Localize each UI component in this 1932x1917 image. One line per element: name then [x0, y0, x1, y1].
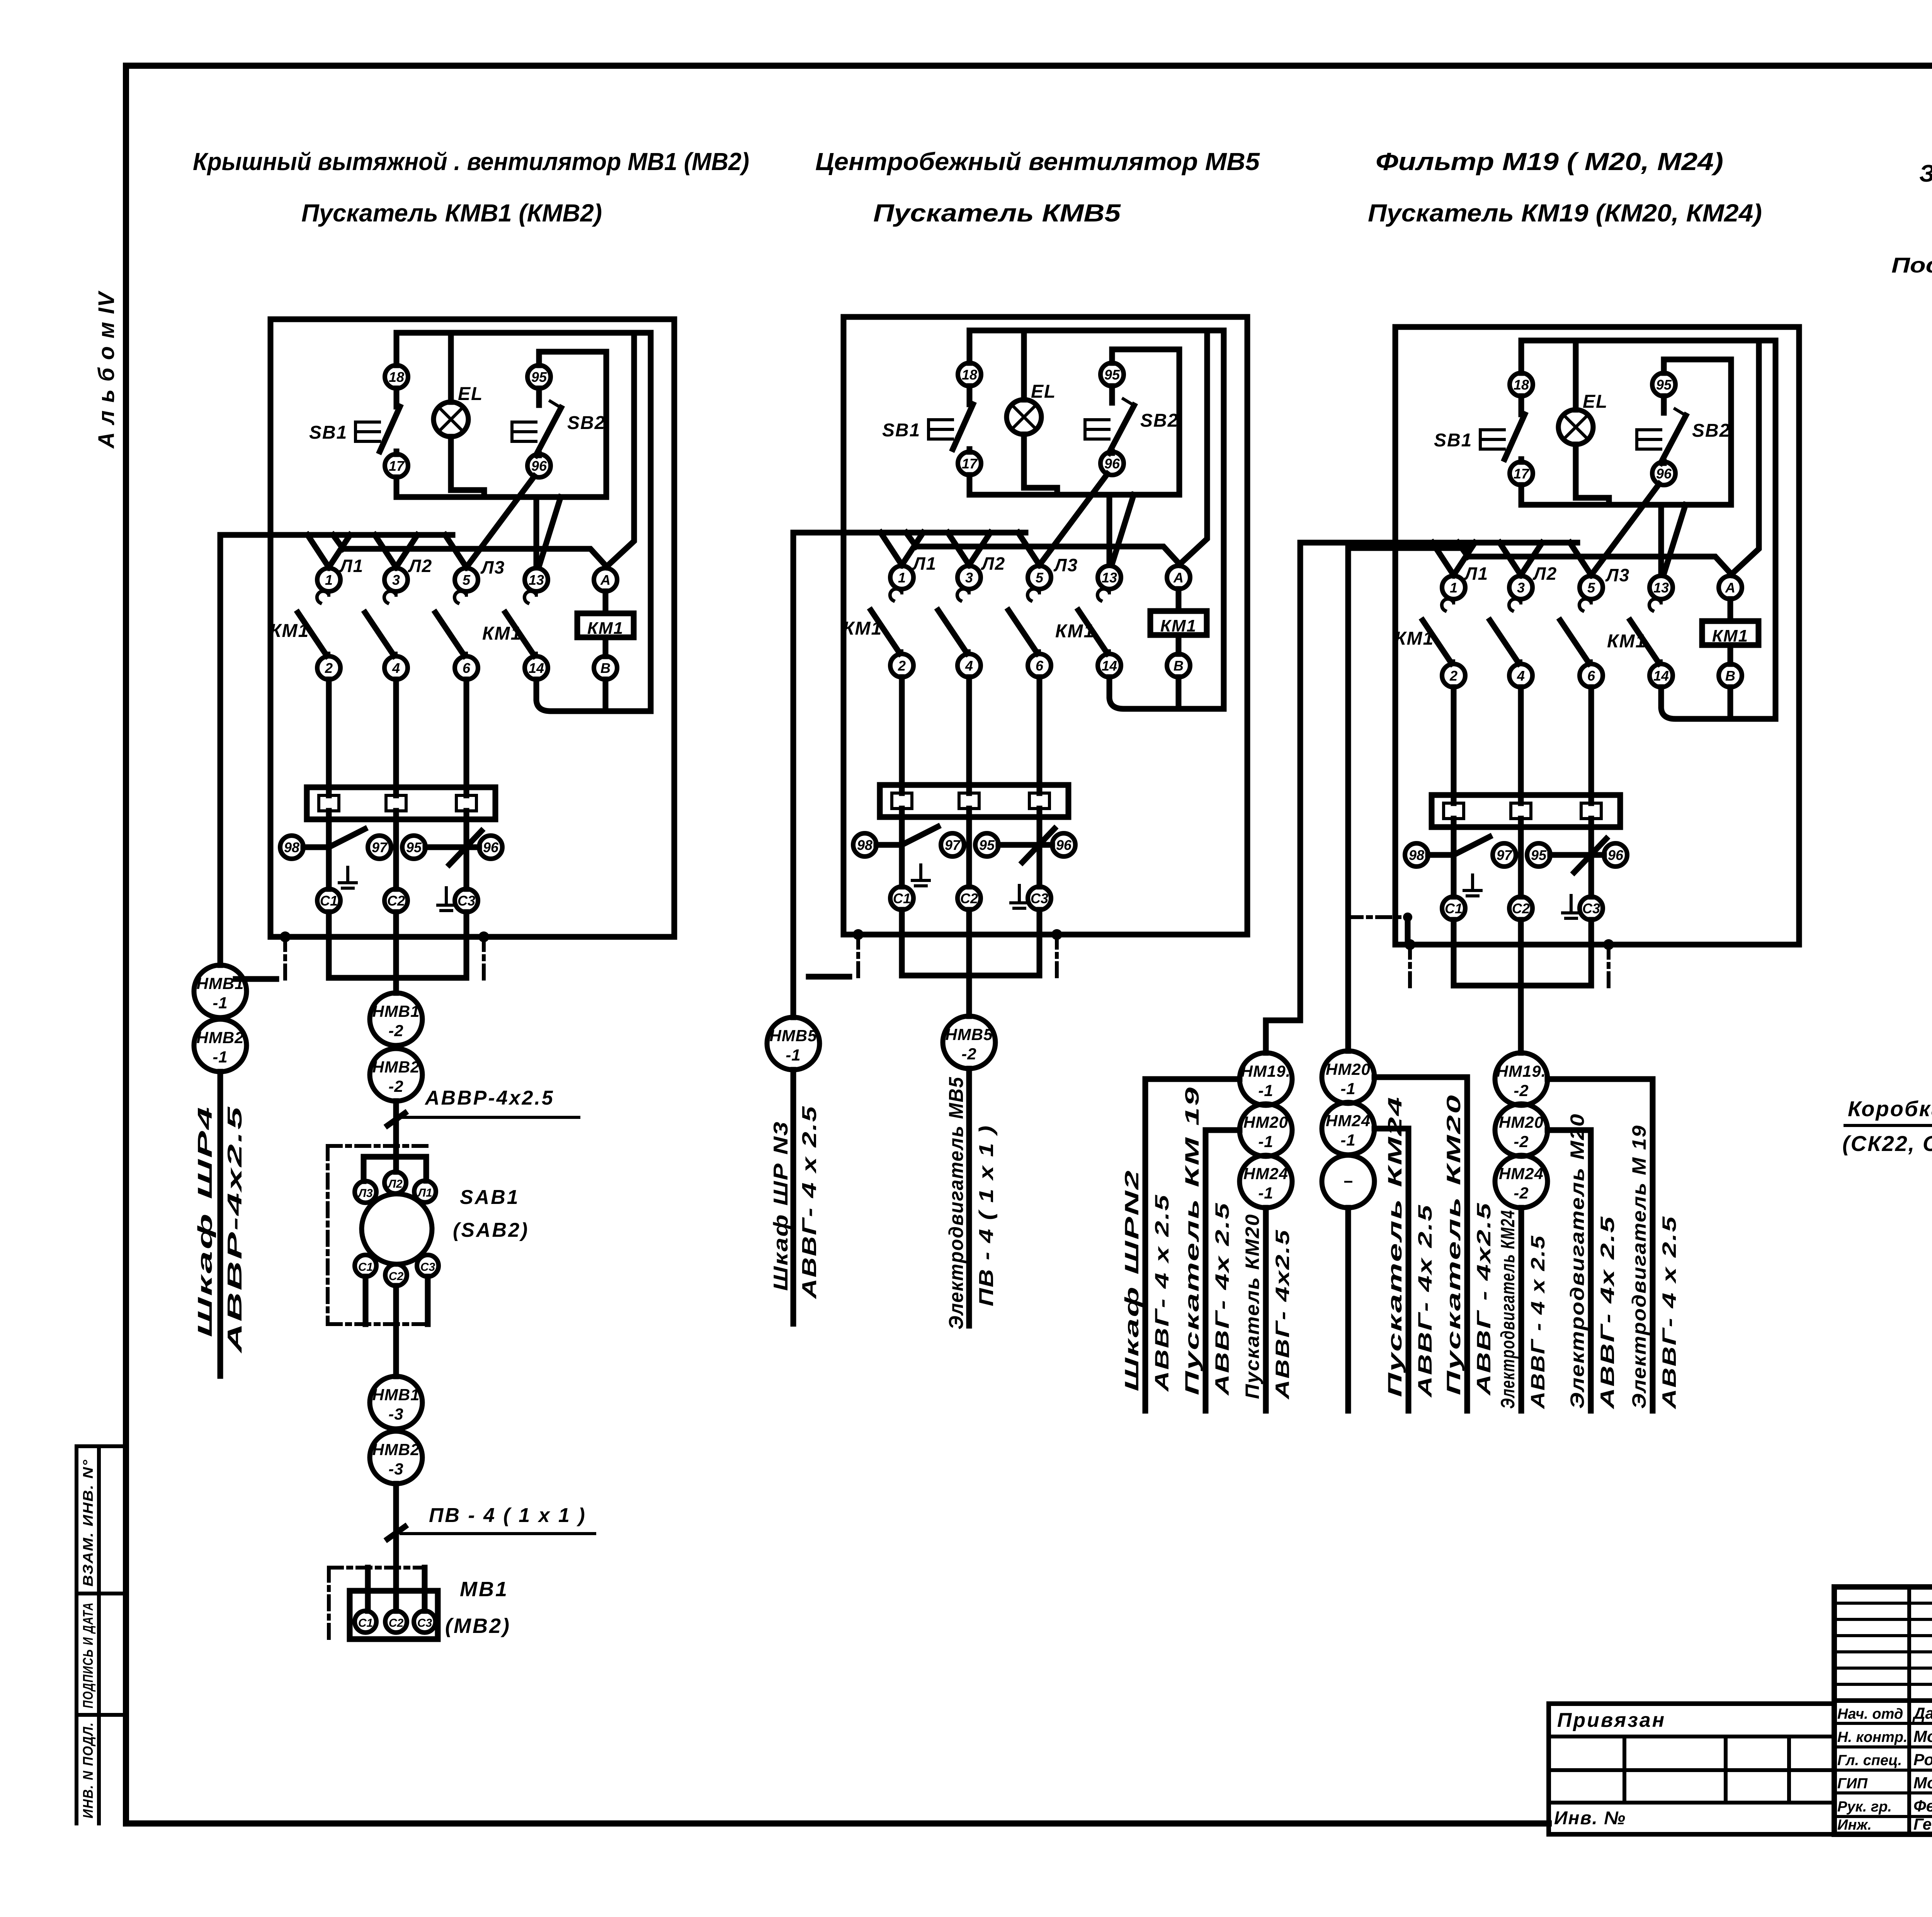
svg-text:Пускатель КМ24: Пускатель КМ24	[1384, 1096, 1406, 1397]
block2 left chain НМВ5-1	[791, 533, 796, 1017]
svg-text:Коробка СК21: Коробка СК21	[1848, 1096, 1932, 1121]
svg-text:-1: -1	[1258, 1132, 1273, 1151]
svg-text:С1: С1	[358, 1261, 373, 1273]
svg-text:Пост кнопочный ≠21-SВ: Пост кнопочный ≠21-SВ	[1891, 253, 1932, 277]
motor starter block 3 КМ19	[1345, 327, 1799, 1001]
svg-text:Н. контр.: Н. контр.	[1837, 1729, 1908, 1745]
svg-text:Гечас: Гечас	[1913, 1815, 1932, 1833]
svg-text:Пускатель КМ19 (КМ20, КМ24): Пускатель КМ19 (КМ20, КМ24)	[1368, 199, 1762, 227]
svg-text:НМВ5: НМВ5	[769, 1027, 817, 1045]
svg-text:(SАВ2): (SАВ2)	[453, 1219, 529, 1241]
svg-text:НМВ1: НМВ1	[372, 1386, 420, 1404]
svg-text:Пускатель КМ20: Пускатель КМ20	[1443, 1094, 1464, 1395]
svg-text:С3: С3	[417, 1617, 432, 1629]
block3 col3 chain НМ19-2	[1518, 1001, 1524, 1053]
svg-text:Федорова: Федорова	[1913, 1797, 1932, 1815]
svg-text:Привязан: Привязан	[1557, 1709, 1666, 1731]
svg-text:Шкаф ШР N3: Шкаф ШР N3	[770, 1121, 792, 1291]
svg-text:Шкаф ШРN2: Шкаф ШРN2	[1121, 1169, 1143, 1391]
svg-text:Нач. отд: Нач. отд	[1837, 1706, 1903, 1722]
svg-text:Л2: Л2	[387, 1178, 403, 1190]
block3 dash link to bus	[1349, 915, 1405, 919]
svg-text:С2: С2	[389, 1270, 404, 1283]
block1 left cable chain НМВ1-1	[218, 535, 223, 965]
svg-text:АВВГ- 4 х 2.5: АВВГ- 4 х 2.5	[1151, 1194, 1173, 1393]
svg-text:-1: -1	[786, 1046, 801, 1064]
svg-text:-1: -1	[213, 1048, 228, 1066]
svg-text:-1: -1	[1340, 1079, 1355, 1098]
svg-text:АВВГ- 4 х 2.5: АВВГ- 4 х 2.5	[798, 1105, 821, 1300]
svg-text:ПВ - 4 ( 1 х 1 ): ПВ - 4 ( 1 х 1 )	[975, 1125, 998, 1306]
svg-text:-1: -1	[1258, 1184, 1273, 1202]
svg-text:(МВ2): (МВ2)	[445, 1614, 511, 1638]
svg-text:НМВ2: НМВ2	[372, 1058, 420, 1076]
svg-text:АВВР-4х2.5: АВВР-4х2.5	[424, 1087, 554, 1109]
svg-text:ПВ - 4 ( 1 х 1 ): ПВ - 4 ( 1 х 1 )	[429, 1504, 587, 1527]
svg-text:АВВГ- 4х 2.5: АВВГ- 4х 2.5	[1414, 1204, 1436, 1398]
svg-text:-2: -2	[388, 1077, 403, 1095]
svg-text:Мосеенко: Мосеенко	[1913, 1774, 1932, 1792]
svg-text:-2: -2	[961, 1045, 976, 1063]
svg-text:НМ24: НМ24	[1499, 1165, 1544, 1183]
svg-text:Рук. гр.: Рук. гр.	[1837, 1799, 1892, 1815]
svg-text:Л1: Л1	[417, 1187, 432, 1199]
block3 col1 chain НМ19-1	[1240, 1053, 1292, 1105]
svg-text:-2: -2	[1514, 1184, 1529, 1202]
block3 col2 chain НМ20-1	[1322, 1051, 1374, 1103]
svg-text:Пускатель КМВ5: Пускатель КМВ5	[873, 199, 1121, 227]
sidebar column	[75, 1446, 78, 1823]
svg-text:Пускатель КМ 19: Пускатель КМ 19	[1181, 1086, 1203, 1395]
svg-text:Электродвигатель М 19: Электродвигатель М 19	[1628, 1125, 1650, 1409]
svg-text:АВВР-4х2.5: АВВР-4х2.5	[224, 1105, 246, 1354]
svg-text:НМВ1: НМВ1	[372, 1002, 420, 1020]
svg-text:Мосеенко: Мосеенко	[1913, 1727, 1932, 1745]
svg-text:С3: С3	[420, 1261, 435, 1273]
svg-text:АВВГ - 4 х 2.5: АВВГ - 4 х 2.5	[1527, 1235, 1549, 1410]
svg-text:НМ20: НМ20	[1243, 1113, 1288, 1131]
svg-text:Электродвигатель КМ24: Электродвигатель КМ24	[1497, 1210, 1519, 1409]
svg-text:SАВ1: SАВ1	[460, 1186, 520, 1209]
svg-text:А л ь б о м IV: А л ь б о м IV	[94, 291, 119, 449]
svg-text:Инж.: Инж.	[1837, 1817, 1872, 1833]
svg-text:Пускатель КМ20: Пускатель КМ20	[1242, 1214, 1263, 1399]
svg-text:Л3: Л3	[357, 1187, 373, 1200]
svg-text:МВ1: МВ1	[460, 1578, 509, 1601]
svg-text:НМВ2: НМВ2	[372, 1440, 420, 1459]
svg-text:-3: -3	[388, 1460, 403, 1478]
svg-text:НМ24: НМ24	[1326, 1112, 1371, 1130]
svg-text:ГИП: ГИП	[1837, 1776, 1868, 1792]
svg-text:−: −	[1343, 1173, 1353, 1191]
svg-text:-2: -2	[388, 1021, 403, 1040]
switch SAB1	[326, 1146, 330, 1324]
svg-text:-1: -1	[1258, 1081, 1273, 1100]
svg-text:АВВГ- 4 х 2.5: АВВГ- 4 х 2.5	[1658, 1216, 1680, 1410]
svg-text:НМ19.: НМ19.	[1497, 1062, 1546, 1080]
svg-text:-1: -1	[213, 994, 228, 1012]
title block table	[1834, 1587, 1932, 1834]
block3 feed extensions	[1300, 540, 1345, 546]
Привязан table	[1549, 1704, 1834, 1834]
svg-text:ПОДПИСЬ И ДАТА: ПОДПИСЬ И ДАТА	[80, 1602, 96, 1708]
block1 middle chain НМВ1-2	[370, 993, 422, 1045]
svg-text:НМВ2: НМВ2	[196, 1028, 244, 1047]
svg-text:НМ24: НМ24	[1243, 1165, 1288, 1183]
svg-text:Крышный вытяжной . вентилятор: Крышный вытяжной . вентилятор МВ1 (МВ2)	[193, 148, 749, 175]
svg-text:С1: С1	[358, 1617, 373, 1629]
svg-text:ВЗАМ. ИНВ. N°: ВЗАМ. ИНВ. N°	[80, 1459, 96, 1587]
block2 middle chain НМВ5-2	[966, 991, 972, 1016]
motor starter block 2 КМВ5	[793, 317, 1247, 991]
svg-text:АВВГ- 4х 2.5: АВВГ- 4х 2.5	[1211, 1202, 1233, 1396]
svg-text:Гл. спец.: Гл. спец.	[1837, 1752, 1902, 1769]
svg-text:НМВ5: НМВ5	[945, 1025, 993, 1044]
svg-text:НМВ1: НМВ1	[196, 974, 244, 993]
svg-text:С2: С2	[389, 1617, 404, 1629]
svg-text:АВВГ - 4х2.5: АВВГ - 4х2.5	[1473, 1202, 1495, 1396]
motor МВ1	[327, 1568, 331, 1639]
svg-text:АВВГ- 4х2.5: АВВГ- 4х2.5	[1272, 1229, 1293, 1400]
svg-text:Шкаф ШР4: Шкаф ШР4	[194, 1105, 216, 1337]
svg-text:ИНВ. N ПОДЛ.: ИНВ. N ПОДЛ.	[80, 1722, 96, 1818]
chain НМВ1-3	[370, 1376, 422, 1429]
svg-text:Электродвигатель М20: Электродвигатель М20	[1566, 1113, 1588, 1409]
svg-text:НМ20: НМ20	[1499, 1113, 1544, 1131]
svg-text:-3: -3	[388, 1405, 403, 1423]
svg-text:НМ19.: НМ19.	[1241, 1062, 1291, 1080]
svg-text:Центробежный вентилятор МВ5: Центробежный вентилятор МВ5	[815, 148, 1260, 175]
svg-text:Заслонка камеры фильтров N1: Заслонка камеры фильтров N1 (N2, N3)	[1919, 160, 1932, 187]
svg-text:Электродвигатель МВ5: Электродвигатель МВ5	[945, 1076, 968, 1330]
motor starter block 1 КМВ1	[220, 319, 674, 993]
svg-text:Пускатель КМВ1 (КМВ2): Пускатель КМВ1 (КМВ2)	[301, 199, 602, 227]
svg-text:Данилов: Данилов	[1912, 1704, 1932, 1722]
svg-text:(СК22, СК23): (СК22, СК23)	[1842, 1131, 1932, 1156]
svg-text:-2: -2	[1514, 1132, 1529, 1151]
block2 stub to cabinet	[809, 974, 849, 980]
svg-text:АВВГ- 4х 2.5: АВВГ- 4х 2.5	[1597, 1216, 1618, 1410]
svg-text:Рольцман: Рольцман	[1913, 1750, 1932, 1769]
svg-text:-2: -2	[1514, 1081, 1529, 1100]
svg-text:Инв. №: Инв. №	[1554, 1808, 1626, 1828]
svg-text:-1: -1	[1340, 1131, 1355, 1149]
svg-text:Фильтр М19 ( М20, М24): Фильтр М19 ( М20, М24)	[1376, 148, 1723, 175]
block1 stub to cabinet	[236, 976, 276, 982]
svg-text:НМ20: НМ20	[1326, 1060, 1371, 1078]
